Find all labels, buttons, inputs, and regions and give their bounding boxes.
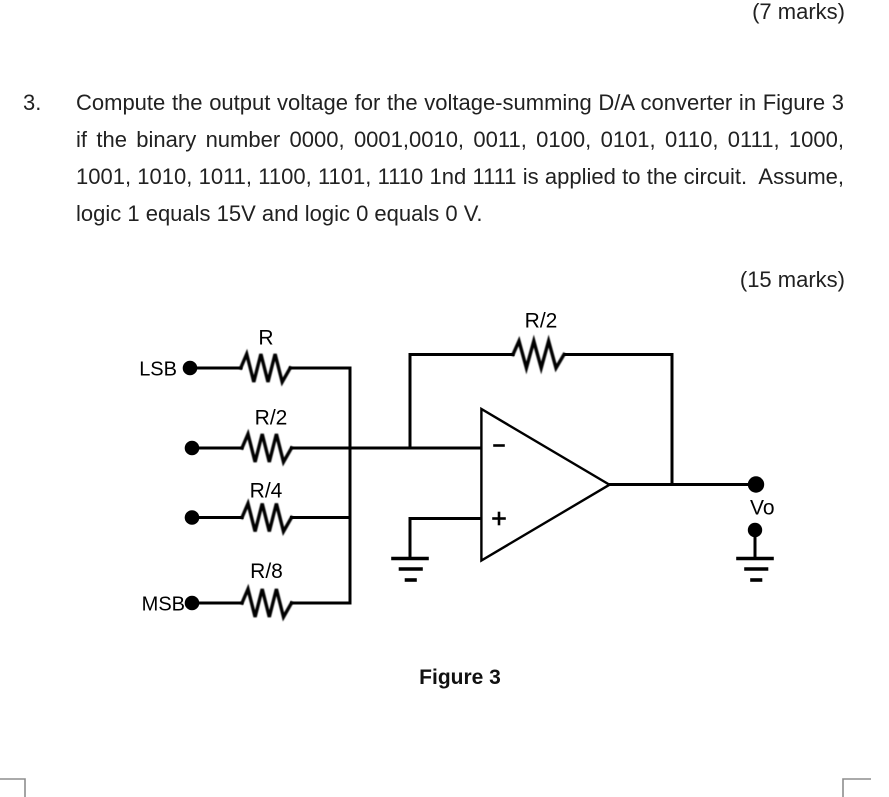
marks line (15 marks)	[0, 261, 845, 298]
figure caption	[330, 666, 590, 690]
wire non-inverting input vertical to ground	[409, 519, 412, 557]
resistor R/4	[242, 504, 292, 532]
op-amp U1	[481, 409, 609, 561]
label Vo	[750, 497, 775, 520]
node bit-2 input terminal	[185, 441, 200, 456]
wire LSB terminal to resistor R	[190, 367, 241, 370]
resistor R/2 input	[242, 434, 292, 462]
op-amp non-inverting pin marker +	[494, 513, 505, 524]
resistor R/8	[242, 589, 292, 617]
ground at output reference	[738, 559, 772, 581]
wire feedback right vertical to output	[671, 355, 674, 485]
svg-text:R/8: R/8	[250, 560, 283, 583]
svg-text:R: R	[258, 327, 273, 350]
wire resistor R/2 to inverting input of op-amp	[292, 447, 481, 450]
node MSB input terminal	[185, 596, 200, 611]
ground at op-amp non-inverting input	[393, 559, 427, 581]
wire bit-2 terminal to resistor R/2	[192, 447, 242, 450]
label R value	[258, 327, 273, 350]
node bit-3 input terminal	[185, 510, 200, 525]
wire ground terminal to ground symbol	[754, 530, 757, 557]
resistor R/2 feedback	[513, 341, 564, 368]
wire bit-3 terminal to resistor R/4	[192, 516, 242, 519]
resistor R	[241, 354, 291, 382]
page corner mark bottom-left	[0, 760, 889, 797]
label R/2 value (feedback)	[525, 310, 558, 333]
svg-text:R/2: R/2	[525, 310, 558, 333]
op-amp inverting pin marker -	[495, 444, 504, 447]
question paragraph	[76, 84, 844, 232]
summing bus vertical wire	[349, 368, 352, 603]
label MSB	[142, 594, 185, 616]
wire resistor R/8 to summing bus	[292, 602, 350, 605]
wire op-amp output to Vo terminal	[610, 483, 757, 486]
wire non-inverting input horizontal	[410, 517, 481, 520]
label R/2 value (input)	[255, 407, 288, 430]
svg-text:LSB: LSB	[139, 359, 177, 381]
label R/8 value	[250, 560, 283, 583]
svg-text:MSB: MSB	[142, 594, 185, 616]
node LSB input terminal	[183, 361, 198, 376]
node Vo output terminal	[748, 476, 764, 492]
wire resistor R to summing bus	[290, 367, 350, 370]
wire resistor R/4 to summing bus	[292, 516, 350, 519]
label LSB	[139, 359, 177, 381]
wire MSB terminal to resistor R/8	[192, 602, 242, 605]
wire feedback top left segment	[410, 353, 513, 356]
wire feedback top right segment	[565, 353, 672, 356]
node ground reference terminal	[748, 523, 762, 537]
svg-text:R/4: R/4	[250, 480, 283, 503]
svg-text:R/2: R/2	[255, 407, 288, 430]
question number	[23, 84, 41, 121]
label R/4 value	[250, 480, 283, 503]
wire feedback tap vertical	[409, 355, 412, 449]
svg-text:Vo: Vo	[750, 497, 775, 520]
marks line (7 marks)	[0, 0, 845, 30]
